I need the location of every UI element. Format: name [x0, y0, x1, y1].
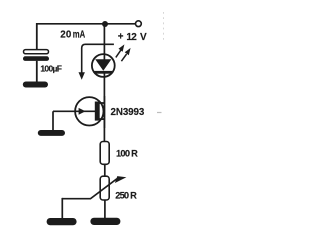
LED D1 triangle [95, 59, 111, 71]
scan artifact dash [157, 112, 162, 114]
svg-text:+: + [118, 32, 124, 43]
current arrow 20 mA [82, 44, 114, 72]
transistor Q1 base-2 stub [97, 102, 105, 104]
potentiometer wiper arrow line [62, 179, 117, 199]
wire between resistor and pot [104, 164, 106, 176]
LED D1 anode lead [103, 54, 105, 60]
wire capacitor lead [36, 61, 38, 82]
scan artifact dotted line [163, 12, 165, 40]
ground capacitor [23, 82, 48, 88]
svg-text:100 R: 100 R [116, 148, 138, 158]
svg-text:100µF: 100µF [40, 63, 62, 73]
svg-text:12: 12 [126, 32, 137, 43]
capacitor C1 100uF top plate [24, 50, 49, 54]
transistor Q1 2N3993 circle [75, 97, 103, 125]
svg-text:250 R: 250 R [115, 191, 137, 201]
terminal +12V [136, 21, 142, 27]
ground emitter [38, 130, 65, 136]
wire pot bottom lead [104, 200, 106, 219]
wire main vertical rail upper [103, 24, 105, 142]
wire main rail through transistor [103, 96, 105, 128]
wire top rail [36, 23, 135, 25]
transistor Q1 base-1 stub [97, 118, 105, 120]
svg-text:mA: mA [73, 29, 85, 40]
emitter wire [53, 110, 95, 112]
svg-text:2N3993: 2N3993 [111, 107, 145, 118]
potentiometer R2 250R body [100, 176, 109, 200]
transistor Q1 base bar [95, 102, 100, 121]
svg-text:V: V [140, 32, 147, 43]
resistor R1 100R [100, 142, 109, 165]
wire left drop to capacitor [36, 23, 38, 50]
LED D1 cathode bar [94, 71, 112, 74]
potentiometer wiper arrowhead [115, 176, 127, 183]
LED D1 circle [92, 54, 115, 77]
LED light arrow 2 [121, 54, 126, 61]
wire emitter bend down [52, 111, 54, 130]
ground bottom right [90, 218, 120, 225]
node junction top [102, 21, 108, 27]
svg-text:20: 20 [60, 29, 72, 40]
LED light arrow 1 [116, 50, 121, 57]
ground bottom left [47, 218, 77, 225]
capacitor C1 100uF bottom plate [23, 56, 49, 61]
wire wiper to ground [61, 198, 63, 219]
LED D1 cathode lead [103, 74, 105, 78]
emitter arrowhead [79, 108, 86, 115]
